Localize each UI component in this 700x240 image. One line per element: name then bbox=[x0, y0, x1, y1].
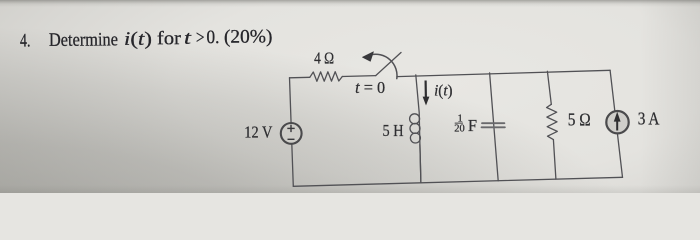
current arrow i(t) beside inductor bbox=[425, 81, 427, 100]
svg-text:t: t bbox=[184, 28, 192, 49]
svg-text:4.: 4. bbox=[20, 30, 31, 51]
voltage source minus sign bbox=[288, 138, 295, 140]
svg-text:20: 20 bbox=[454, 124, 465, 135]
wire: right side (top-right corner down to bottom-right corner) bbox=[610, 70, 622, 177]
svg-text:0.: 0. bbox=[206, 27, 219, 48]
resistor R2 5-ohm zigzag (vertical) bbox=[547, 104, 558, 139]
svg-text:>: > bbox=[196, 27, 205, 48]
fraction bar bbox=[455, 122, 463, 124]
svg-text:5 Ω: 5 Ω bbox=[568, 110, 591, 130]
svg-text:(20%): (20%) bbox=[224, 26, 273, 47]
switch motion arc bbox=[371, 54, 397, 78]
svg-text:i(t): i(t) bbox=[124, 29, 152, 50]
wire: top-left segment from top-left corner to resistor bbox=[290, 76, 310, 79]
svg-text:4 Ω: 4 Ω bbox=[314, 49, 334, 68]
capacitor C1 top plate bbox=[482, 122, 504, 124]
svg-text:5 H: 5 H bbox=[383, 121, 404, 140]
svg-text:t = 0: t = 0 bbox=[355, 78, 385, 97]
wire: 5-ohm branch lower lead bbox=[553, 140, 556, 180]
svg-text:Determine: Determine bbox=[49, 29, 118, 51]
wire: top-right segment from switch contact to top-right corner bbox=[397, 70, 610, 76]
title text: problem statement bbox=[20, 26, 273, 51]
wire: 5-ohm branch upper lead bbox=[547, 71, 551, 104]
svg-text:3 A: 3 A bbox=[638, 109, 660, 129]
wire: inductor branch lower lead (continues to bottom wire) bbox=[420, 145, 421, 183]
wire: from resistor to switch pivot bbox=[342, 75, 375, 78]
voltage source plus sign bbox=[287, 125, 294, 140]
wire: capacitor branch (vertical through plates) bbox=[490, 73, 499, 181]
switch arrowhead bbox=[363, 52, 374, 61]
current source I1 3A circle bbox=[606, 111, 628, 133]
wire: bottom (bottom-left to bottom-right corner) bbox=[293, 177, 622, 186]
current source arrow (up) bbox=[616, 120, 618, 131]
svg-text:for: for bbox=[157, 28, 182, 49]
svg-text:i(t): i(t) bbox=[434, 83, 453, 100]
switch blade (open, tilted up-right) bbox=[376, 53, 401, 76]
wire: left side (top-left corner down to bottom-left corner) bbox=[290, 78, 294, 187]
inductor L1 coil (3 loops) bbox=[410, 114, 420, 124]
svg-text:F: F bbox=[468, 116, 477, 135]
wire: inductor branch upper lead bbox=[416, 75, 421, 183]
capacitor C1 bottom plate bbox=[482, 126, 505, 128]
resistor R1 4-ohm zigzag bbox=[310, 72, 343, 82]
voltage source V1 12V circle bbox=[281, 123, 302, 144]
svg-text:12 V: 12 V bbox=[244, 123, 273, 142]
